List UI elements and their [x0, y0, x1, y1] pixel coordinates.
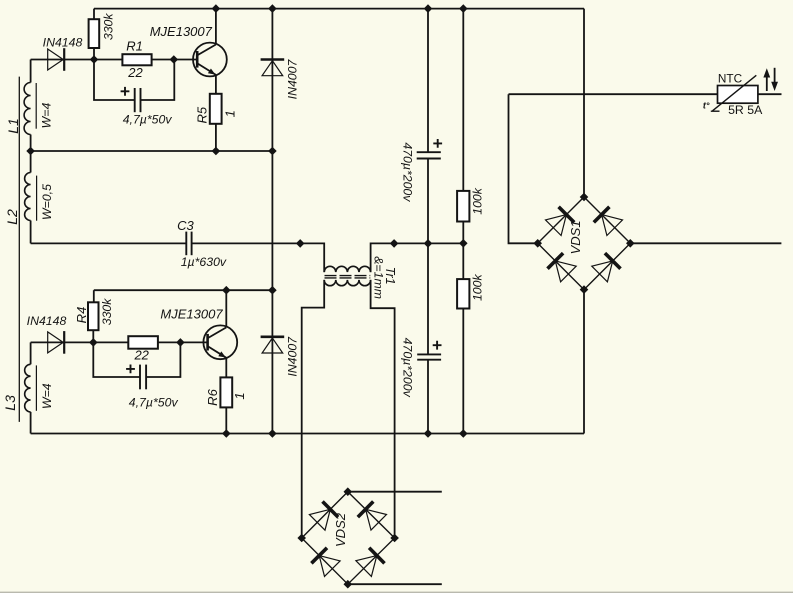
- svg-text:470µ*200v: 470µ*200v: [400, 142, 414, 202]
- label 4,7u*50v (upper): [123, 113, 173, 127]
- node C3 wire dot: [296, 239, 305, 248]
- svg-text:1µ*630v: 1µ*630v: [181, 255, 227, 269]
- svg-text:C3: C3: [177, 218, 194, 233]
- resistor 22 (lower): [128, 336, 158, 349]
- svg-text:R4: R4: [74, 307, 89, 324]
- label 4,7u*50v (lower): [129, 396, 179, 410]
- svg-text:&=1mm: &=1mm: [371, 256, 385, 299]
- node R5 bottom: [212, 147, 221, 156]
- label VDS1: [568, 220, 583, 254]
- svg-text:4,7µ*50v: 4,7µ*50v: [123, 113, 173, 127]
- wire top rail: [94, 8, 584, 10]
- wire lower base net right (22R to Q2 base): [158, 341, 208, 343]
- transistor Q2 MJE13007: [203, 325, 237, 359]
- transistor Q1 MJE13007: [193, 43, 227, 77]
- label 100k (upper): [471, 187, 485, 215]
- wire NTC left lead: [509, 93, 718, 95]
- label W=0,5: [40, 184, 54, 220]
- label L1: [5, 118, 21, 134]
- node top rail / Q1 collector: [212, 4, 221, 13]
- label VDS2: [333, 512, 348, 547]
- label R4: [74, 307, 89, 324]
- wire IN4007 column: [271, 9, 273, 434]
- svg-text:IN4148: IN4148: [43, 36, 83, 50]
- wire VDS1 - feed (bridge bottom to bottom rail): [583, 290, 585, 434]
- wire lower base net left (IN4148 row): [31, 341, 129, 343]
- node VDS2 top corner: [344, 487, 353, 496]
- label L2: [4, 209, 20, 225]
- svg-text:MJE13007: MJE13007: [160, 307, 223, 322]
- wire Tr1 secondary left to VDS2: [302, 280, 325, 538]
- bridge VDS1 diode top-right: [594, 207, 623, 236]
- scan artifact bottom edge: [0, 592, 793, 593]
- bridge VDS1 diode bottom-right: [592, 253, 621, 282]
- thermistor NTC diagonal: [711, 75, 757, 111]
- label W=4 (L3) underline: [35, 365, 37, 410]
- capacitor 470u*200v (lower) polarity +: [433, 341, 442, 350]
- svg-text:1: 1: [232, 392, 247, 399]
- wire L3 top lead: [30, 342, 32, 364]
- transformer Tr1 core: [325, 276, 371, 278]
- wire L1-L2 junction to L2: [30, 135, 32, 173]
- node B1 Q1 base: [170, 55, 179, 64]
- svg-text:t°: t°: [703, 101, 710, 111]
- thermistor NTC t-mark: [703, 101, 710, 111]
- wire upper base net right (R1 to Q1 base): [152, 59, 198, 61]
- label R6: [205, 388, 220, 405]
- node A1 330k-IN4148-R1: [90, 55, 99, 64]
- node IN4007 column / junction row: [268, 147, 277, 156]
- node VDS1 right corner: [626, 239, 635, 248]
- node half-rail / 100k mid: [459, 239, 468, 248]
- label 330k (upper): [101, 13, 115, 41]
- svg-text:22: 22: [133, 348, 149, 363]
- capacitor 470u*200v (lower) plates: [417, 354, 441, 359]
- svg-text:22: 22: [127, 65, 143, 80]
- wire 330k bottom lead: [93, 48, 95, 60]
- wire NTC jog to VDS1 left corner: [509, 94, 538, 243]
- resistor R4: [88, 302, 99, 330]
- node VDS1 top corner: [580, 193, 589, 202]
- inductor L3 coil: [25, 364, 31, 412]
- wire 330k top lead: [93, 9, 95, 20]
- wire R6 bottom lead: [225, 407, 227, 433]
- bridge VDS2 diode bottom-right: [356, 548, 385, 577]
- resistor R5: [210, 94, 222, 124]
- bridge VDS1 frame: [538, 197, 631, 290]
- svg-text:NTC: NTC: [718, 72, 743, 86]
- label R5: [195, 106, 210, 123]
- label 5R 5A: [728, 103, 763, 117]
- wire Q1 emitter lead: [215, 75, 217, 94]
- svg-text:4,7µ*50v: 4,7µ*50v: [129, 396, 179, 410]
- wire C3 net right to Tr1 primary: [192, 243, 325, 272]
- svg-text:IN4148: IN4148: [27, 314, 67, 328]
- node L1/L2 junction: [26, 147, 35, 156]
- label W=4 (L1): [40, 103, 54, 129]
- svg-text:W=0,5: W=0,5: [40, 184, 54, 220]
- resistor 100k (upper): [457, 191, 469, 222]
- wire lower collector rail: [94, 289, 273, 291]
- svg-text:MJE13007: MJE13007: [150, 24, 213, 39]
- wire upper cap branch right: [141, 60, 175, 101]
- wire VDS2 output +: [348, 491, 442, 493]
- svg-text:VDS2: VDS2: [333, 512, 348, 547]
- resistor R1: [122, 54, 151, 65]
- wire junction row L1/R5/IN4007: [31, 150, 273, 152]
- capacitor 4,7u*50v (upper) polarity +: [121, 87, 130, 96]
- diode IN4148 (upper): [48, 48, 64, 71]
- node bottom rail / R6: [222, 429, 231, 438]
- mains arrow up: [763, 68, 770, 91]
- diode IN4007 (upper): [261, 60, 285, 76]
- label C3: [177, 218, 194, 233]
- resistor 100k (lower): [457, 279, 469, 308]
- svg-text:470µ*200v: 470µ*200v: [400, 338, 414, 398]
- capacitor 470u*200v (upper) polarity +: [433, 139, 442, 148]
- wire L1 top lead: [30, 60, 32, 83]
- wire 470u lower leads: [427, 243, 429, 433]
- svg-text:W=4: W=4: [40, 383, 54, 409]
- node bottom rail / 470u lower: [424, 429, 433, 438]
- capacitor 4,7u*50v (lower) polarity +: [126, 365, 135, 374]
- node VDS1 left corner: [533, 239, 542, 248]
- node VDS2 left corner: [297, 534, 306, 543]
- label IN4007 (lower): [286, 336, 300, 377]
- inductor L2 coil: [25, 173, 31, 221]
- label W=0,5 underline: [36, 176, 38, 221]
- label 1 (R5): [222, 110, 237, 117]
- mains arrow down: [771, 68, 778, 91]
- wire R4 top lead: [93, 290, 95, 302]
- label W=4 (L3): [40, 383, 54, 409]
- node bottom rail / 100k lower: [459, 429, 468, 438]
- label 100k (lower): [471, 274, 485, 302]
- capacitor C3 plates: [186, 232, 191, 256]
- label MJE13007 (lower): [160, 307, 223, 322]
- svg-text:R5: R5: [195, 106, 210, 123]
- label 470u*200v (lower): [400, 338, 414, 398]
- capacitor 4,7u*50v (lower) plates: [140, 365, 146, 390]
- wire 470u upper leads: [427, 9, 429, 244]
- bridge VDS2 diode top-left: [309, 502, 338, 531]
- inductor L1 coil: [24, 83, 30, 135]
- node VDS2 right corner: [390, 534, 399, 543]
- wire Q2 emitter lead: [225, 358, 227, 378]
- label R1: [126, 39, 143, 54]
- wire L2 bottom lead: [30, 221, 32, 244]
- resistor R6: [220, 377, 232, 407]
- wire VDS2 output -: [348, 583, 442, 585]
- bridge VDS1 diode top-left: [546, 207, 575, 236]
- node half-rail / 470u mid: [424, 239, 433, 248]
- wire Q2 collector lead: [225, 290, 227, 327]
- wire bottom rail: [31, 433, 584, 435]
- svg-text:IN4007: IN4007: [286, 59, 300, 100]
- wire upper cap branch left: [94, 60, 135, 101]
- node VDS1 bottom corner: [580, 285, 589, 294]
- bridge VDS2 diode top-right: [358, 502, 387, 531]
- wire lower cap branch left: [93, 342, 140, 377]
- bridge VDS1 diode bottom-left: [548, 253, 577, 282]
- label 1u*630v (C3): [181, 255, 227, 269]
- svg-text:L3: L3: [2, 395, 18, 411]
- label Tr1: [383, 267, 397, 285]
- bridge VDS2 diode bottom-left: [311, 548, 340, 577]
- label L3: [2, 395, 18, 411]
- thermistor NTC body: [718, 86, 758, 104]
- svg-text:R6: R6: [205, 388, 220, 405]
- transformer Tr1 secondary winding: [324, 280, 370, 286]
- node VDS2 bottom corner: [344, 580, 353, 589]
- svg-text:L1: L1: [5, 118, 21, 134]
- wire 100k chain: [462, 9, 464, 434]
- node top rail / IN4007 column: [268, 4, 277, 13]
- wire C3 net left: [31, 242, 187, 244]
- svg-text:L2: L2: [4, 209, 20, 225]
- bridge VDS2 frame: [302, 492, 395, 585]
- label MJE13007 (upper): [150, 24, 213, 39]
- svg-text:100k: 100k: [471, 187, 485, 215]
- label IN4007 (upper): [286, 59, 300, 100]
- node top rail / 470u upper: [424, 4, 433, 13]
- wire L3 bottom lead: [30, 412, 32, 434]
- label 330k (R4): [100, 298, 114, 326]
- svg-text:W=4: W=4: [40, 103, 54, 129]
- label NTC: [718, 72, 743, 86]
- capacitor 4,7u*50v (upper) plates: [135, 88, 141, 112]
- wire NTC right lead: [758, 93, 782, 95]
- node A2 R4-IN4148-22R: [89, 338, 98, 347]
- wire VDS1 AC right: [630, 242, 781, 244]
- label 22 (lower): [133, 348, 149, 363]
- transformer Tr1 primary winding: [324, 266, 370, 272]
- wire upper base net left (IN4148 row): [31, 59, 123, 61]
- svg-text:5R 5A: 5R 5A: [728, 103, 763, 117]
- capacitor 470u*200v (upper) plates: [417, 152, 441, 158]
- node bottom rail / IN4007 column: [268, 429, 277, 438]
- label &amp;=1mm (Tr1 gap): [371, 256, 385, 299]
- node half-rail / VDS2 feed: [390, 239, 399, 248]
- svg-text:VDS1: VDS1: [568, 220, 583, 254]
- label 470u*200v (upper): [400, 142, 414, 202]
- inductor common core line: [18, 77, 20, 422]
- node top rail / 100k upper: [459, 4, 468, 13]
- label 22 (R1): [127, 65, 143, 80]
- wire Q1 collector lead: [215, 9, 217, 45]
- node B2 Q2 base: [176, 338, 185, 347]
- svg-text:330k: 330k: [100, 298, 114, 326]
- svg-text:100k: 100k: [471, 274, 485, 302]
- node Q2 collector rail: [222, 286, 231, 295]
- wire R5 bottom lead: [215, 124, 217, 151]
- svg-text:R1: R1: [126, 39, 143, 54]
- diode IN4007 (lower): [261, 337, 285, 353]
- svg-text:330k: 330k: [101, 13, 115, 41]
- label IN4148 (upper): [43, 36, 83, 50]
- diode IN4148 (lower): [48, 331, 64, 354]
- resistor 330k (upper): [89, 19, 100, 48]
- wire Tr1 primary right to half-rail: [371, 243, 464, 272]
- wire VDS1 + feed (top rail to bridge top corner): [583, 9, 585, 197]
- label IN4148 (lower): [27, 314, 67, 328]
- wire Tr1 secondary right lead: [371, 280, 395, 538]
- label W=4 (L1) underline: [35, 83, 37, 129]
- wire R4 bottom lead: [92, 330, 94, 342]
- wire lower cap branch right: [146, 342, 180, 377]
- svg-text:IN4007: IN4007: [286, 336, 300, 377]
- svg-text:1: 1: [222, 110, 237, 117]
- node IN4007 column / collector rail: [268, 286, 277, 295]
- label 1 (R6): [232, 392, 247, 399]
